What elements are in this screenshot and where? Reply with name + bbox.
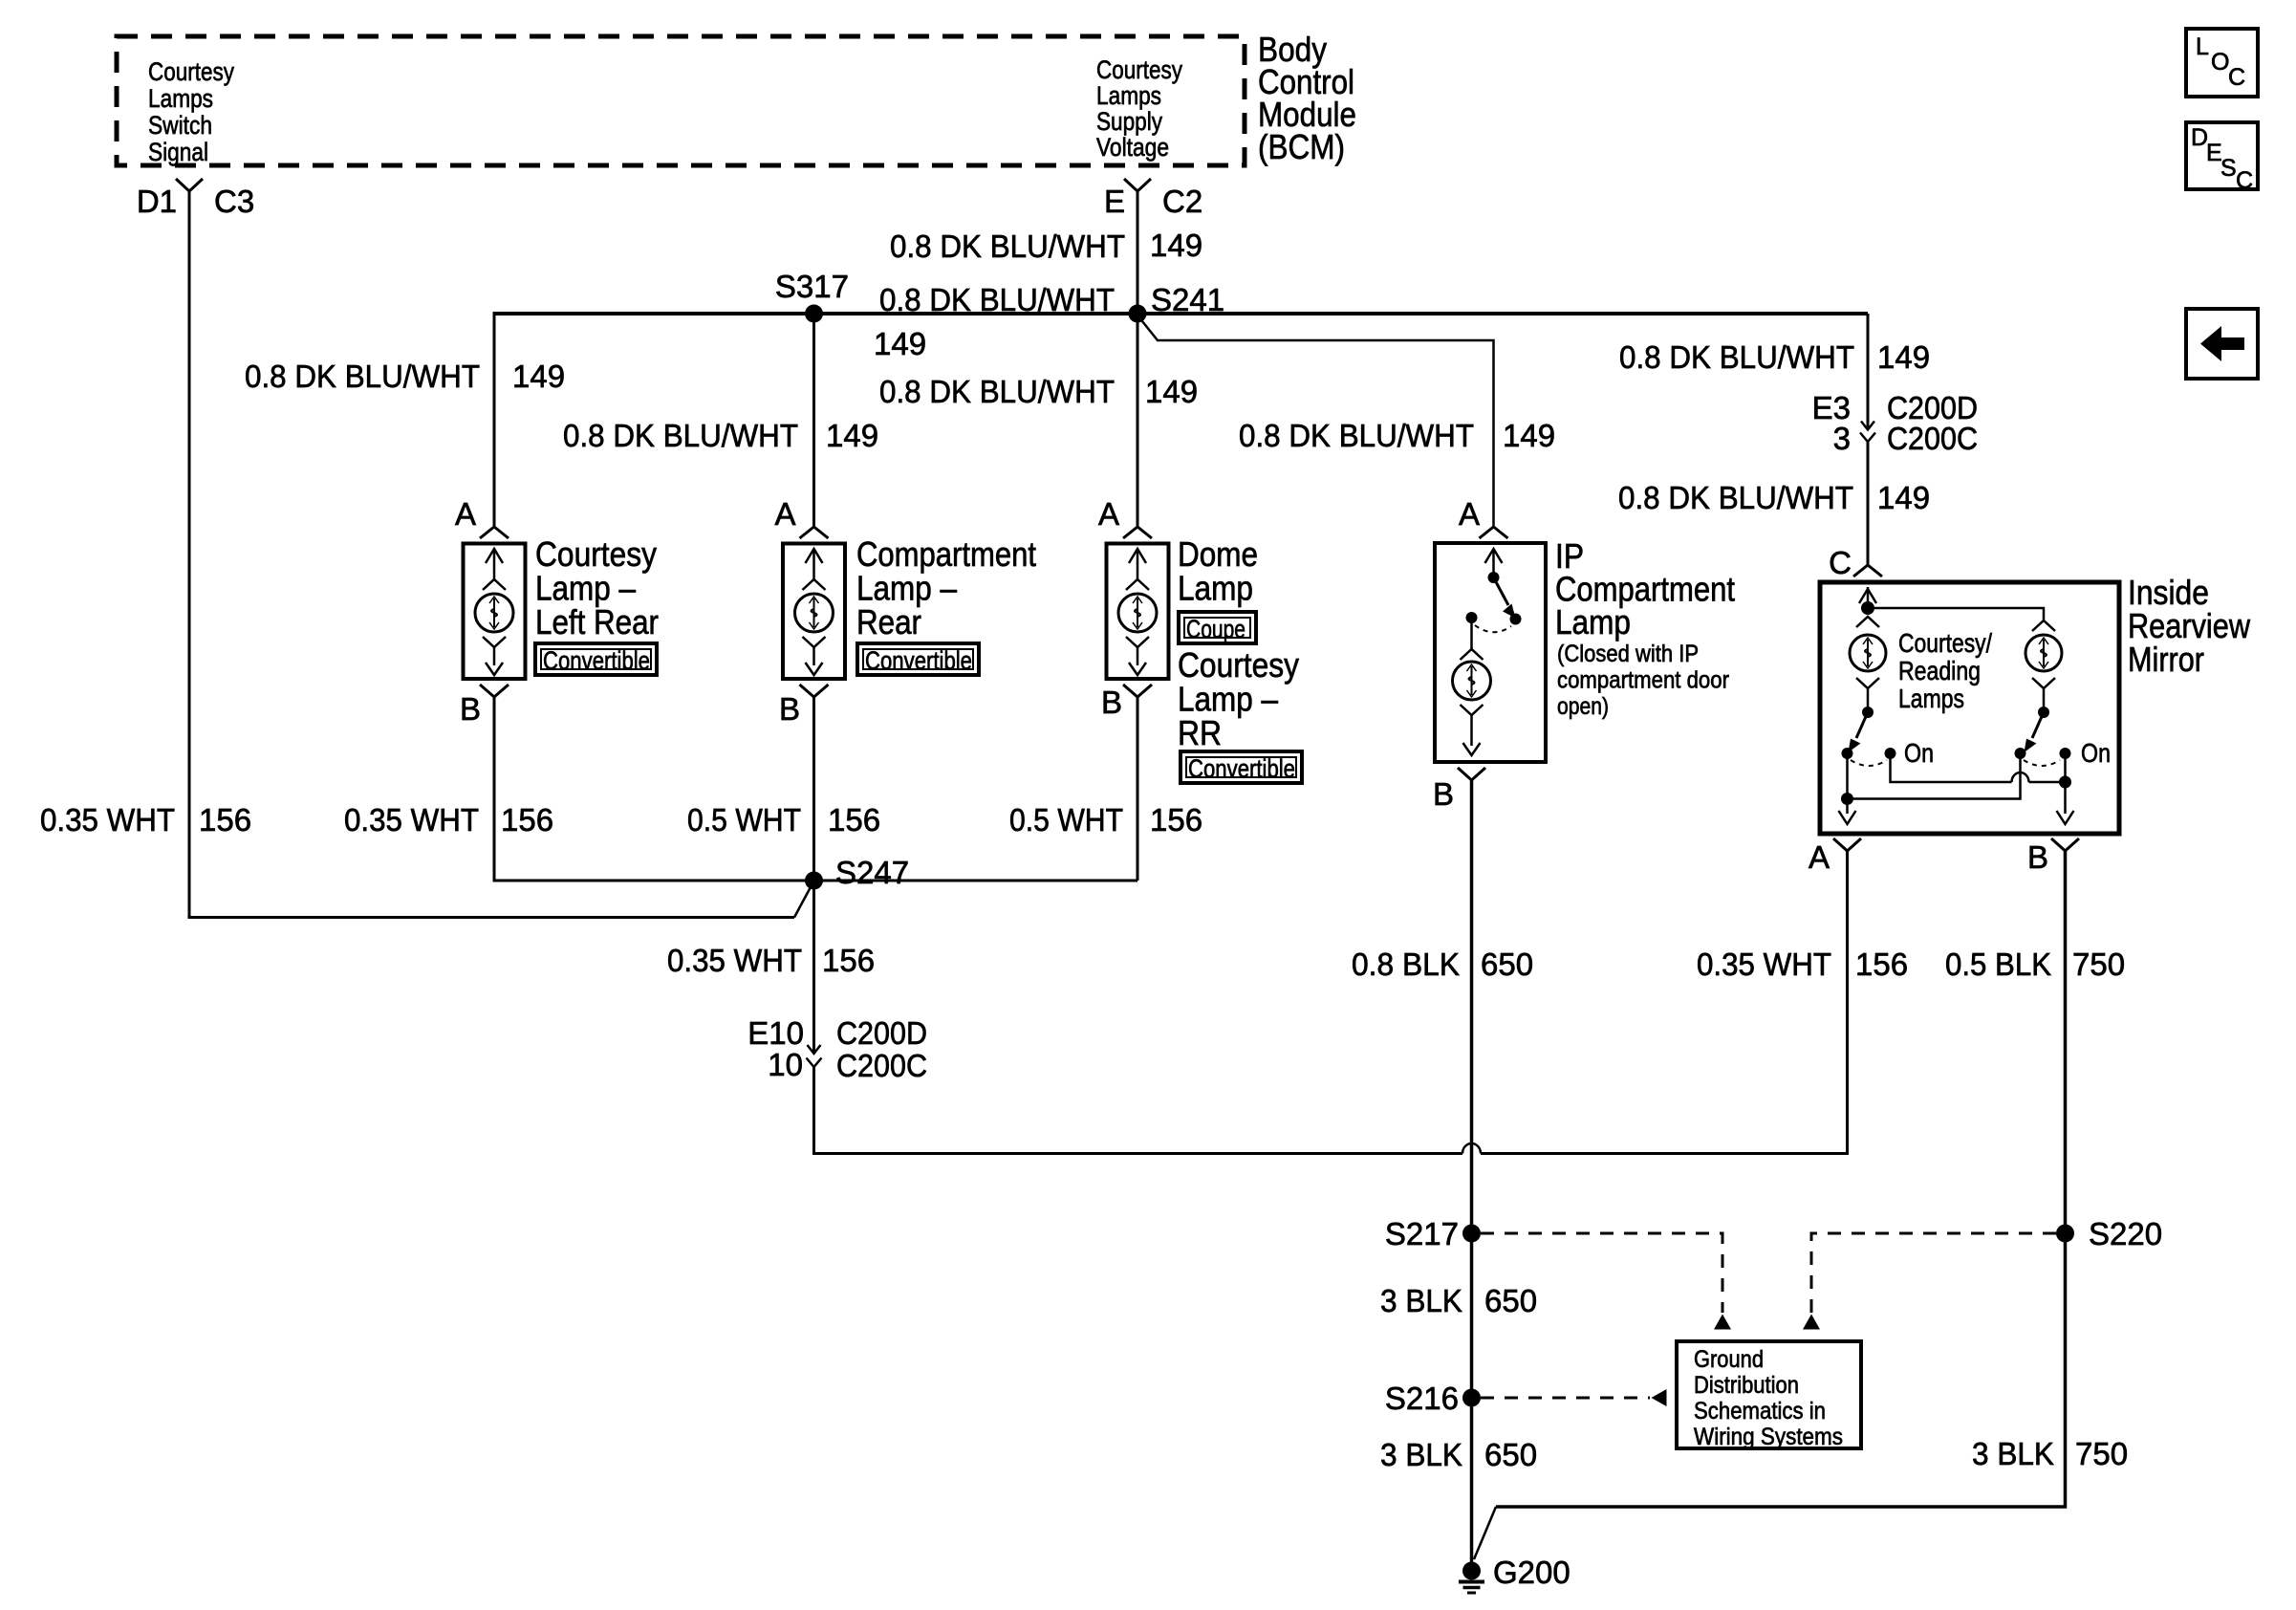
svg-text:A: A [1459,496,1480,532]
junction S241 [1129,305,1147,323]
svg-text:0.8 BLK: 0.8 BLK [1352,946,1460,982]
svg-text:156: 156 [199,802,251,838]
svg-text:C: C [1829,545,1852,580]
svg-text:S: S [2220,155,2237,182]
svg-text:0.8 DK BLU/WHT: 0.8 DK BLU/WHT [1239,418,1474,453]
svg-text:650: 650 [1484,1283,1537,1318]
wire: BCM pin E down to S241 and dome lamp [1137,191,1139,526]
svg-text:149: 149 [1145,374,1198,409]
wire: compartment lamp B to S247 [812,697,815,881]
connector E10 C200D/C200C [808,1045,821,1054]
junction S216 [1462,1389,1481,1407]
svg-text:Switch: Switch [148,111,212,140]
svg-text:Lamp: Lamp [1178,569,1253,608]
wire: ground rail continues to mirror pin A riser [1481,851,1848,1154]
svg-text:149: 149 [1877,339,1930,375]
svg-text:Coupe: Coupe [1186,615,1245,643]
svg-text:Signal: Signal [148,138,208,166]
convertible tag (dome lamp) [1180,751,1302,783]
wire: courtesy lamps switch signal (D1) down and across to S247 [189,191,794,918]
IP door switch [1488,572,1500,583]
svg-text:750: 750 [2072,946,2125,982]
svg-text:O: O [2211,49,2229,76]
compartment lamp rear: case [783,544,845,680]
svg-text:156: 156 [1150,802,1202,838]
dome lamp: case [1107,544,1169,680]
svg-text:149: 149 [512,359,565,394]
svg-text:C200D: C200D [836,1015,927,1051]
svg-text:Rear: Rear [856,602,921,642]
svg-text:0.5 WHT: 0.5 WHT [687,802,801,838]
mirror left lamp [1856,617,1879,627]
svg-text:S217: S217 [1385,1216,1459,1251]
svg-text:149: 149 [826,418,878,453]
wire: rail down to compartment lamp [812,314,815,526]
connector E3 C200D/C200C [1861,422,1874,430]
svg-text:0.35 WHT: 0.35 WHT [40,802,175,838]
svg-text:B: B [1433,776,1454,812]
svg-text:E10: E10 [747,1015,804,1051]
BCM pin function: Courtesy Lamps Switch Signal [148,57,234,166]
wire hop over IP ground wire [1462,1143,1481,1154]
svg-text:Reading: Reading [1898,656,1981,685]
wire: dome lamp B to S247 rail [1137,697,1139,881]
mirror pin A connector [1833,838,1861,851]
compartment lamp - rear [774,496,1036,727]
svg-text:650: 650 [1484,1437,1537,1472]
svg-text:On: On [1904,738,1934,768]
dome lamp: pin B connector [1123,685,1152,697]
svg-text:S216: S216 [1385,1381,1459,1416]
svg-text:Convertible: Convertible [543,646,650,675]
svg-text:0.8 DK BLU/WHT: 0.8 DK BLU/WHT [879,282,1115,317]
mirror right switch [2038,707,2049,718]
svg-text:Courtesy: Courtesy [1096,55,1182,84]
BCM title [1258,30,1356,166]
svg-text:156: 156 [501,802,553,838]
svg-text:Distribution: Distribution [1694,1372,1799,1399]
svg-text:C: C [2236,167,2253,194]
svg-text:S220: S220 [2089,1216,2162,1251]
svg-text:149: 149 [1503,418,1555,453]
mirror left switch [1862,707,1874,718]
svg-text:Supply: Supply [1096,107,1162,136]
svg-text:Convertible: Convertible [865,646,972,675]
svg-text:Left Rear: Left Rear [535,602,659,642]
svg-text:149: 149 [1150,228,1202,263]
svg-text:D1: D1 [137,184,177,219]
compartment lamp rear: pin B connector [800,685,829,697]
dashed reference S220 to ground distribution [1811,1233,2056,1313]
svg-text:0.8 DK BLU/WHT: 0.8 DK BLU/WHT [563,418,798,453]
svg-text:0.8 DK BLU/WHT: 0.8 DK BLU/WHT [245,359,480,394]
wire: rail down to courtesy lamp left rear [493,312,496,526]
svg-text:0.35 WHT: 0.35 WHT [667,943,802,978]
connector at BCM pin E/C2 [1124,179,1151,191]
IP pin B connector [1458,768,1485,780]
svg-text:Wiring Systems: Wiring Systems [1694,1424,1843,1450]
body control module (BCM) dashed box [117,36,1245,165]
svg-text:0.8 DK BLU/WHT: 0.8 DK BLU/WHT [890,228,1125,264]
wire: left rear lamp B to S247 rail [494,697,1137,881]
svg-text:Ground: Ground [1694,1346,1764,1373]
courtesy lamp left rear: pin A connector [480,527,509,538]
svg-text:3 BLK: 3 BLK [1380,1437,1462,1472]
mirror right lamp [2032,620,2055,631]
coupe tag (dome lamp) [1179,612,1256,643]
svg-text:156: 156 [1855,946,1908,982]
junction S217 [1462,1225,1481,1243]
svg-text:0.5 WHT: 0.5 WHT [1009,802,1123,838]
svg-text:0.8 DK BLU/WHT: 0.8 DK BLU/WHT [1619,339,1854,375]
svg-text:Lamps: Lamps [148,84,213,113]
svg-text:C2: C2 [1162,184,1202,219]
dashed reference S216 to ground distribution [1481,1397,1650,1400]
courtesy lamp left rear: pin B connector [480,685,509,697]
svg-text:C200C: C200C [1887,421,1978,456]
junction S317 [805,305,823,323]
svg-text:149: 149 [874,326,926,361]
svg-text:Courtesy: Courtesy [148,57,234,86]
junction S247 [805,872,823,890]
svg-text:compartment door: compartment door [1557,667,1729,694]
svg-text:3: 3 [1833,421,1851,456]
svg-text:Lamp: Lamp [1555,602,1631,642]
svg-text:3 BLK: 3 BLK [1972,1436,2054,1471]
svg-text:10: 10 [768,1047,803,1082]
IP lamp bulb [1470,622,1473,650]
junction S220 [2056,1225,2074,1243]
svg-text:0.5 BLK: 0.5 BLK [1945,946,2051,982]
connector at BCM pin D1/C3 [176,179,203,191]
svg-text:B: B [460,691,481,727]
ground distribution schematics reference box [1677,1341,1861,1450]
svg-text:open): open) [1557,693,1609,720]
svg-text:0.35 WHT: 0.35 WHT [344,802,479,838]
svg-text:A: A [774,496,795,532]
svg-text:G200: G200 [1493,1555,1570,1590]
svg-text:C200C: C200C [836,1048,927,1083]
DESC reference box [2186,122,2258,194]
svg-text:(BCM): (BCM) [1258,127,1345,166]
convertible tag (left rear lamp) [535,643,657,675]
wire: rail to inside rearview mirror pin C [1867,314,1870,429]
svg-text:B: B [2027,839,2048,875]
svg-text:S317: S317 [775,269,849,304]
dome lamp / courtesy lamp RR [1098,496,1299,752]
svg-text:Voltage: Voltage [1096,133,1169,162]
courtesy lamp - left rear [455,496,659,727]
wire: distribution rail S317-S241-mirror [494,312,1868,315]
svg-text:B: B [1101,685,1122,720]
BCM pin function: Courtesy Lamps Supply Voltage [1096,55,1182,162]
IP compartment lamp [1433,496,1735,812]
svg-text:L: L [2196,33,2209,60]
svg-text:Schematics in: Schematics in [1694,1398,1826,1425]
svg-text:C3: C3 [214,184,254,219]
mirror internal wiring to pins [1846,753,1849,814]
svg-text:Mirror: Mirror [2128,640,2204,679]
svg-text:Lamps: Lamps [1898,684,1964,713]
ground G200 [1459,1555,1570,1593]
LOC reference box [2186,29,2258,97]
dome lamp: pin A connector [1123,527,1152,538]
svg-text:S241: S241 [1151,282,1224,317]
svg-text:(Closed with IP: (Closed with IP [1557,641,1699,667]
convertible tag (compartment lamp) [857,643,979,675]
wire: IP lamp B down to G200 [1470,780,1474,1566]
svg-text:S247: S247 [835,855,909,890]
svg-text:Courtesy/: Courtesy/ [1898,628,1992,658]
courtesy lamp left rear: case [464,544,526,680]
mirror pin B connector [2051,838,2079,851]
svg-text:RR: RR [1178,713,1222,752]
svg-text:0.8 DK BLU/WHT: 0.8 DK BLU/WHT [1618,480,1853,515]
svg-text:156: 156 [828,802,880,838]
back arrow box [2186,309,2258,379]
svg-text:Convertible: Convertible [1188,754,1295,783]
svg-text:3 BLK: 3 BLK [1380,1283,1462,1318]
svg-text:149: 149 [1877,480,1930,515]
wire: S247 down through E10 to ground rail [812,881,815,1054]
wire: mirror pin B down to 750 ground run [1496,851,2066,1507]
svg-text:156: 156 [822,943,875,978]
svg-text:On: On [2081,738,2111,768]
compartment lamp rear: lamp symbol [812,551,815,579]
svg-text:650: 650 [1481,946,1533,982]
svg-text:C: C [2228,64,2245,91]
svg-text:A: A [1809,839,1830,875]
courtesy lamp left rear: lamp symbol [493,551,496,579]
inside rearview mirror [1820,545,2251,834]
svg-text:A: A [455,496,476,532]
svg-text:0.8 DK BLU/WHT: 0.8 DK BLU/WHT [879,374,1115,409]
svg-text:0.35 WHT: 0.35 WHT [1697,946,1831,982]
svg-text:B: B [779,691,800,727]
svg-text:750: 750 [2075,1436,2128,1471]
wire: S241 branch to IP compartment lamp [1138,316,1494,526]
svg-text:A: A [1098,496,1119,532]
compartment lamp rear: pin A connector [800,527,829,538]
svg-text:E: E [1104,184,1125,219]
svg-text:Lamps: Lamps [1096,81,1161,110]
dome lamp: lamp symbol [1137,551,1139,579]
dashed reference S217 to ground distribution [1481,1233,1722,1313]
